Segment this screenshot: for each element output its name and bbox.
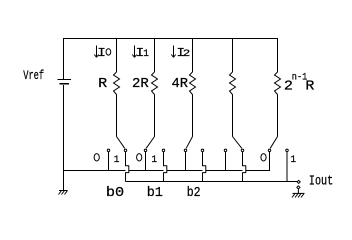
svg-text:R: R xyxy=(98,76,108,92)
svg-text:1: 1 xyxy=(151,155,157,166)
svg-text:R: R xyxy=(305,79,315,95)
svg-text:2: 2 xyxy=(183,49,191,60)
wire ground bus segment 4 (S2 hop to S3 hop) xyxy=(206,170,243,172)
switch S0 contact circles xyxy=(107,149,110,152)
current arrow I0 xyxy=(96,46,98,58)
switch S3 contact circles xyxy=(224,149,227,152)
svg-text:Vref: Vref xyxy=(23,68,44,83)
wire ground bus segment 3 (S1 hop to S2 hop) xyxy=(167,170,203,172)
switch S2 arm (to contact 0) xyxy=(186,137,192,149)
Iout open terminal diamond xyxy=(297,180,300,183)
wire below resistor 2R xyxy=(154,95,156,137)
svg-text:b0: b0 xyxy=(106,185,124,201)
wire ground bus segment 5 (S3 hop to S4 contact-0) xyxy=(246,170,270,172)
resistor R zigzag xyxy=(114,72,120,95)
switch S2 contact-0 tick xyxy=(185,152,187,171)
wire top rail xyxy=(63,38,278,40)
svg-text:Iout: Iout xyxy=(309,173,333,189)
svg-text:b2: b2 xyxy=(187,185,201,201)
switch S0 contact-1 wire with hop over ground bus xyxy=(126,152,129,182)
ground (left, Vref return) xyxy=(59,190,68,192)
resistor 2^(n-1)R zigzag xyxy=(275,72,281,95)
switch S4 contact-0 tick (ground bus end) xyxy=(269,152,271,171)
wire left rail upper (Vref branch) xyxy=(63,38,65,79)
wire below resistor 4R xyxy=(192,95,194,137)
switch S1 contact circles xyxy=(144,149,147,152)
switch S3 contact-0 tick xyxy=(225,152,227,171)
wire left rail lower to ground xyxy=(63,85,65,191)
ground stub terminal diamond xyxy=(297,186,300,189)
switch S2 contact circles xyxy=(184,149,187,152)
switch S1 arm (to contact 0) xyxy=(146,137,154,149)
wire branch drop b0 xyxy=(116,38,118,72)
svg-text:1: 1 xyxy=(114,155,120,166)
current arrow I1 xyxy=(134,46,136,58)
switch S4 position labels xyxy=(261,154,266,161)
resistor 4R zigzag xyxy=(190,72,196,95)
switch S4 arm (to contact 0) xyxy=(270,137,277,149)
switch S0 arm (to contact 1) xyxy=(117,137,125,149)
wire below resistor R xyxy=(116,95,118,137)
svg-text:2R: 2R xyxy=(132,76,149,92)
unlabeled resistor zigzag xyxy=(230,72,236,95)
switch S0 position labels xyxy=(94,154,99,161)
battery Vref positive plate xyxy=(58,79,72,81)
wire ground bus segment 2 (S0 hop to S1 hop) xyxy=(129,170,164,172)
switch S1 position labels xyxy=(137,154,142,161)
wire branch drop b(n-1) xyxy=(277,38,279,72)
switch S3 contact-1 wire with hop over ground bus xyxy=(243,152,246,182)
svg-text:1: 1 xyxy=(290,155,296,166)
svg-text:1: 1 xyxy=(143,49,149,60)
wire branch drop b1 xyxy=(154,38,156,72)
svg-text:b1: b1 xyxy=(147,185,163,201)
current arrow I2 xyxy=(173,46,175,58)
wire branch drop b2 xyxy=(192,38,194,72)
resistor 2R zigzag xyxy=(152,72,158,95)
battery Vref negative plate xyxy=(60,83,70,85)
svg-text:I: I xyxy=(97,46,106,60)
switch S1 contact-1 wire with hop over ground bus xyxy=(164,152,167,182)
ground (right, output return) xyxy=(297,189,299,193)
switch S3 arm (to contact 1) xyxy=(233,137,242,149)
switch S1 contact-0 tick xyxy=(145,152,147,171)
switch S0 contact-0 tick xyxy=(108,152,110,171)
wire ground bus segment 1 (rail to S0 hop) xyxy=(64,170,126,172)
wire branch drop b(n-2) xyxy=(232,38,234,72)
switch S2 contact-1 wire with hop over ground bus xyxy=(203,152,206,182)
switch S4 contact-1 tick to output bus xyxy=(286,152,288,182)
wire below resistor 2^(n-1)R xyxy=(277,95,279,137)
output bus (lower bus) xyxy=(126,181,298,183)
switch S4 contact circles xyxy=(268,149,271,152)
wire below unlabeled resistor xyxy=(232,95,234,137)
svg-text:4R: 4R xyxy=(172,76,189,92)
